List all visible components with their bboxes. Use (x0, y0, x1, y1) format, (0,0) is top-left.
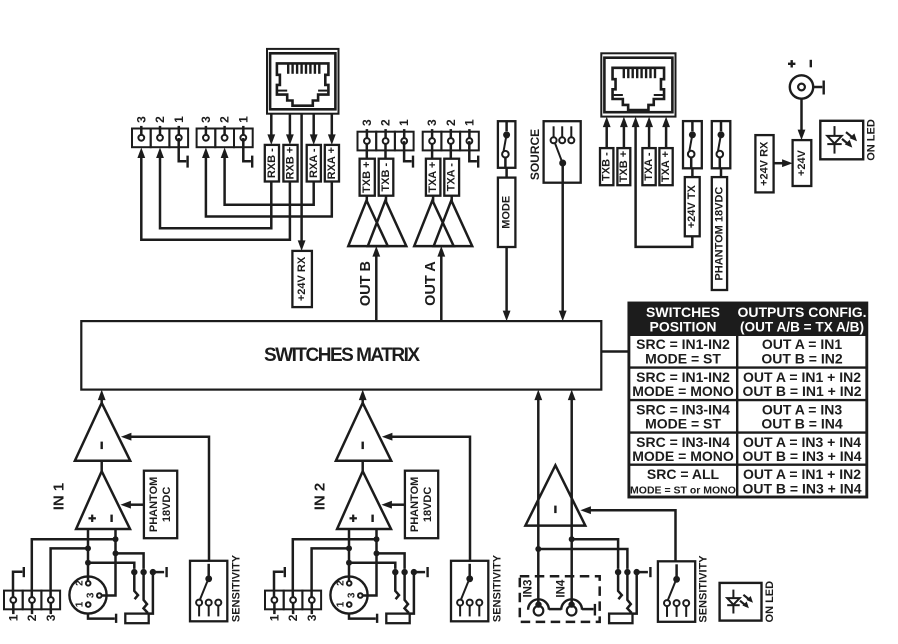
svg-text:OUT B = IN3 + IN4: OUT B = IN3 + IN4 (742, 480, 861, 496)
svg-text:SOURCE: SOURCE (528, 129, 542, 180)
switch MODE toggle (498, 121, 516, 168)
svg-text:TXB -: TXB - (380, 163, 392, 192)
svg-text:MODE = MONO: MODE = MONO (632, 383, 734, 399)
wire IN1 - input (99, 529, 118, 596)
svg-text:IN 2: IN 2 (312, 483, 329, 511)
svg-text:(OUT A/B = TX A/B): (OUT A/B = TX A/B) (740, 319, 864, 334)
svg-text:1: 1 (6, 614, 20, 621)
wire matrix to OUT A amps (437, 246, 445, 321)
jack IN3 (522, 580, 549, 616)
label OUT B (358, 261, 374, 306)
svg-text:3: 3 (134, 116, 148, 123)
switch SENSITIVITY IN2 (451, 561, 488, 622)
label IN 2 (312, 483, 329, 511)
RJ45 connector TX (601, 53, 675, 116)
svg-text:1: 1 (236, 116, 250, 123)
switch SENSITIVITY IN3/4 (658, 561, 695, 622)
svg-text:PHANTOM: PHANTOM (409, 477, 421, 532)
label TXB- (rj45) (600, 148, 613, 185)
power jack - mark (810, 60, 812, 68)
power jack barrel (790, 75, 824, 98)
wire RJ45 RX to RXB+ (286, 114, 294, 145)
wire IN3 branch to switch (538, 549, 627, 569)
XLR connector IN1 (69, 576, 106, 613)
svg-text:RXA -: RXA - (308, 148, 320, 178)
label TXB- (left) (379, 159, 394, 196)
label ON LED (bottom) (764, 581, 776, 623)
label TXB+ (left) (360, 159, 375, 196)
svg-text:3: 3 (347, 592, 358, 598)
svg-text:TXA +: TXA + (427, 162, 439, 193)
svg-text:SRC = ALL: SRC = ALL (647, 466, 720, 482)
svg-text:POSITION: POSITION (650, 318, 717, 334)
svg-text:MODE: MODE (501, 196, 513, 229)
svg-text:MODE = ST: MODE = ST (645, 350, 721, 366)
svg-text:2: 2 (336, 580, 347, 586)
wire IN1 - branch to switch (116, 553, 144, 569)
svg-text:SENSITIVITY: SENSITIVITY (698, 555, 710, 623)
wire IN1 block pin1 ground (13, 567, 24, 600)
wire J3 pin3 to TXB+ (366, 141, 369, 159)
svg-text:PHANTOM: PHANTOM (148, 477, 160, 532)
label +24V (793, 140, 812, 186)
wire IN3/4 sensitivity feedback (580, 506, 675, 561)
terminal block J4 (3-2-1) (423, 119, 479, 150)
svg-text:TXB -: TXB - (601, 152, 613, 181)
chassis stub J1 pin1 (179, 138, 188, 168)
switch +24V TX toggle (683, 121, 702, 168)
XLR connector IN2 (330, 576, 367, 613)
wire IN2 block pin2 to - (293, 539, 377, 600)
svg-text:RXB +: RXB + (285, 147, 297, 180)
svg-text:SENSITIVITY: SENSITIVITY (491, 554, 503, 622)
wire IN2 + input (346, 529, 352, 581)
wire matrix to table (601, 350, 629, 353)
label TXA- (rj45) (642, 148, 655, 185)
op-amp OUT A+ (414, 200, 454, 246)
wire MODE switch link (505, 168, 508, 178)
wire TXB+ to amp (366, 196, 369, 202)
svg-text:18VDC: 18VDC (161, 487, 173, 523)
svg-text:3: 3 (44, 614, 58, 621)
label ON LED (top) (866, 119, 878, 161)
terminal block J2 (3-2-1) (197, 116, 253, 147)
wire PHANTOM TX switch link (720, 168, 723, 177)
wire MODE to matrix (503, 247, 511, 321)
wire jack link (549, 608, 561, 611)
wire IN4 branch to switch (572, 539, 618, 569)
svg-text:IN 1: IN 1 (51, 483, 68, 511)
wire TX label to RJ45 TX (645, 117, 653, 149)
svg-text:2: 2 (218, 116, 232, 123)
wire J4 pin2 to TXA- (450, 141, 453, 159)
wire RXA- to J2 pin2 (221, 148, 314, 205)
switch SENSITIVITY IN1 (190, 561, 227, 622)
svg-text:2: 2 (286, 614, 300, 621)
label +24V TX (685, 177, 700, 236)
svg-text:1: 1 (172, 116, 186, 123)
svg-text:SENSITIVITY: SENSITIVITY (230, 554, 242, 622)
svg-text:OUT B = IN3 + IN4: OUT B = IN3 + IN4 (742, 448, 861, 464)
op-amp OUT B- (368, 200, 407, 246)
wire IN2 block pin3 to + (312, 548, 349, 600)
switch PHANTOM toggle (712, 121, 731, 168)
svg-text:2: 2 (153, 116, 167, 123)
input switch group IN1 (125, 567, 166, 623)
chassis stub J2 pin1 (243, 138, 252, 168)
wire IN2 xlr ground (349, 614, 377, 623)
svg-text:1: 1 (462, 119, 476, 126)
wire SOURCE to matrix (559, 163, 567, 321)
label +24V RX (292, 251, 312, 307)
svg-text:ON LED: ON LED (866, 119, 878, 161)
svg-text:MODE = ST or MONO: MODE = ST or MONO (630, 484, 736, 496)
terminal block IN2 (1-2-3) (265, 591, 321, 622)
svg-text:3: 3 (86, 592, 97, 598)
svg-text:IN3: IN3 (522, 580, 534, 598)
wire IN1 amp to matrix (98, 390, 106, 403)
svg-text:TXA -: TXA - (446, 163, 458, 192)
terminal block J1 (3-2-1) (132, 116, 188, 147)
table outputs config (629, 303, 867, 497)
wire IN2 - input (360, 529, 379, 596)
chassis stub J3 pin1 (404, 141, 413, 168)
svg-text:1: 1 (397, 119, 411, 126)
svg-text:3: 3 (360, 119, 374, 126)
wire barrel to +24V (798, 99, 806, 140)
svg-text:2: 2 (379, 119, 393, 126)
wire IN1 + input (85, 529, 91, 581)
label RXA- (307, 145, 321, 182)
label PHANTOM 18VDC TX (712, 177, 727, 290)
wire IN3 to matrix (534, 390, 542, 605)
wire IN2 stage link (361, 461, 364, 472)
label RXA+ (325, 145, 339, 182)
input switch group IN2 (386, 567, 427, 623)
label RXB- (265, 145, 279, 182)
terminal block J3 (3-2-1) (358, 119, 414, 150)
svg-text:MODE = MONO: MODE = MONO (632, 448, 734, 464)
wire RJ45 RX to RXA- (310, 114, 318, 145)
wire IN4 to matrix (568, 390, 576, 605)
wire J4 pin3 to TXA+ (431, 141, 434, 159)
label PHANTOM 18VDC IN2 (405, 471, 438, 539)
svg-text:TXB +: TXB + (361, 161, 373, 192)
svg-text:TXA +: TXA + (660, 151, 672, 182)
wire +24V TX to RJ45 TX (632, 117, 693, 247)
LED ON (bottom) (720, 583, 762, 621)
svg-text:+24V RX: +24V RX (296, 256, 308, 301)
label TXA- (left) (444, 159, 459, 196)
op-amp IN2 stage2 (336, 403, 391, 461)
svg-text:2: 2 (25, 614, 39, 621)
svg-text:OUTPUTS CONFIG.: OUTPUTS CONFIG. (737, 304, 866, 320)
svg-text:MODE = ST: MODE = ST (645, 416, 721, 432)
wire RJ45 RX to RXA+ (328, 114, 336, 145)
switch SOURCE selector (544, 121, 581, 183)
jack IN4 (555, 579, 582, 615)
svg-text:SWITCHES MATRIX: SWITCHES MATRIX (264, 345, 420, 366)
op-amp IN1 stage2 (75, 403, 130, 461)
RJ45 connector RX (267, 49, 339, 114)
terminal block IN1 (1-2-3) (4, 591, 60, 622)
svg-text:IN4: IN4 (555, 579, 567, 598)
wire IN1 block pin3 to + (51, 548, 88, 600)
wire IN2 sensitivity feedback (382, 433, 470, 561)
svg-text:RXB -: RXB - (266, 148, 278, 178)
wire RXB- to J1 pin2 (156, 148, 271, 229)
op-amp OUT A- (434, 200, 473, 246)
label OUT A (423, 261, 439, 306)
svg-text:3: 3 (305, 614, 319, 621)
svg-text:PHANTOM 18VDC: PHANTOM 18VDC (714, 187, 726, 281)
label RXB+ (283, 145, 297, 182)
svg-text:TXA -: TXA - (643, 152, 655, 181)
label TXA+ (left) (426, 159, 441, 196)
LED ON (top) (820, 121, 863, 160)
wire TX label to RJ45 TX (620, 117, 628, 149)
wire J3 pin2 to TXB- (384, 141, 387, 159)
wire +24V RX to +24V (774, 159, 793, 167)
wire TXA- to amp (450, 196, 453, 202)
label PHANTOM 18VDC IN1 (144, 471, 177, 539)
wire jack IN4 ground (582, 604, 595, 616)
wire IN2 phantom arrow (381, 501, 405, 509)
label +24V RX (psu) (755, 135, 773, 192)
svg-text:+24V RX: +24V RX (759, 141, 771, 186)
label SENSITIVITY IN1 (230, 554, 242, 622)
wire TX label to RJ45 TX (662, 117, 670, 149)
svg-text:2: 2 (444, 119, 458, 126)
op-amp IN3/4 (525, 465, 585, 525)
wire RJ45 RX to +24V RX (298, 114, 306, 251)
svg-text:3: 3 (425, 119, 439, 126)
svg-text:18VDC: 18VDC (422, 487, 434, 523)
op-amp IN1 stage1 (76, 471, 130, 529)
svg-text:1: 1 (267, 614, 281, 621)
svg-text:ON LED: ON LED (764, 581, 776, 623)
switches matrix box (81, 321, 601, 390)
wire IN2 block pin1 ground (274, 567, 285, 600)
svg-text:1: 1 (75, 601, 86, 607)
dashed box IN3/IN4 (520, 576, 600, 622)
svg-text:RXA +: RXA + (326, 147, 338, 179)
wire IN1 sensitivity feedback (121, 433, 209, 561)
wire RXB+ to J1 pin3 (137, 148, 290, 240)
wire IN1 xlr ground (88, 614, 116, 623)
label SENSITIVITY IN2 (491, 554, 503, 622)
label TXB+ (rj45) (617, 148, 630, 185)
svg-text:+24V: +24V (796, 149, 808, 176)
power jack + mark (788, 60, 795, 67)
label SENSITIVITY IN3/4 (698, 555, 710, 623)
svg-text:OUT B = IN2: OUT B = IN2 (761, 350, 843, 366)
wire matrix to OUT B amps (372, 246, 380, 321)
wire TXA+ to amp (432, 196, 435, 202)
label MODE (498, 178, 516, 247)
wire IN2 + branch to switch (349, 563, 395, 569)
svg-text:1: 1 (336, 601, 347, 607)
op-amp IN2 stage1 (337, 471, 391, 529)
svg-text:2: 2 (75, 580, 86, 586)
wire RXA+ to J2 pin3 (202, 148, 332, 217)
label IN 1 (51, 483, 68, 511)
wire TXB- to amp (385, 196, 388, 202)
label SOURCE (528, 129, 542, 180)
input switch group IN3/4 (609, 567, 650, 623)
wire TX label to RJ45 TX (603, 117, 611, 149)
svg-text:OUT B = IN1 + IN2: OUT B = IN1 + IN2 (742, 383, 861, 399)
wire IN1 stage link (100, 461, 103, 472)
op-amp OUT B+ (348, 200, 388, 246)
svg-text:3: 3 (199, 116, 213, 123)
svg-text:OUT B: OUT B (358, 261, 374, 306)
wire IN1 block pin2 to - (32, 539, 116, 600)
wire IN2 - branch to switch (377, 553, 405, 569)
wire IN2 amp to matrix (359, 390, 367, 403)
wire IN1 + branch to switch (88, 563, 134, 569)
chassis stub J4 pin1 (469, 141, 478, 168)
svg-text:TXB +: TXB + (618, 151, 630, 182)
wire IN1 phantom arrow (120, 501, 143, 509)
svg-text:OUT B = IN4: OUT B = IN4 (761, 416, 843, 432)
wire RJ45 RX to RXB- (267, 114, 275, 145)
svg-text:+24V TX: +24V TX (686, 184, 698, 228)
label TXA+ (rj45) (659, 148, 672, 185)
svg-text:OUT A: OUT A (423, 261, 439, 306)
wire +24V TX switch link (691, 168, 694, 177)
